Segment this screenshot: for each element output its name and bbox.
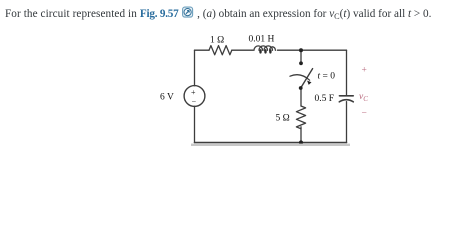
svg-text:5 Ω: 5 Ω: [276, 114, 290, 124]
gray band below bottom wire: [191, 144, 350, 147]
problem statement text: [5, 5, 474, 22]
wire switch upper stub: [300, 50, 302, 63]
wire switch to resistor: [300, 88, 302, 106]
switch action arc arrow: [290, 75, 310, 81]
inductor L1 0.01H: [254, 46, 275, 50]
wire resistor to bottom: [300, 127, 302, 143]
inductor winding curl 2: [264, 49, 267, 54]
svg-text:−: −: [192, 97, 197, 106]
switch arrow head: [307, 81, 311, 85]
inductor winding curl 3: [269, 49, 272, 54]
svg-text:1 Ω: 1 Ω: [210, 36, 224, 46]
node B junction dot (bottom of middle branch): [299, 140, 303, 144]
wire right branch upper (to capacitor): [346, 50, 348, 95]
wire between resistor and inductor: [232, 49, 253, 51]
wire right branch lower (capacitor to bottom): [346, 102, 348, 143]
resistor R2 5ohm: [296, 106, 305, 129]
svg-text:+: +: [191, 88, 196, 97]
resistor R1 1ohm: [209, 46, 232, 55]
svg-text:t = 0: t = 0: [318, 72, 336, 82]
svg-text:−: −: [362, 109, 367, 119]
switch terminal dot upper: [299, 61, 303, 65]
voltage source V1 circle: [184, 86, 205, 107]
wire top-left segment: [195, 49, 210, 51]
wire node A to top-right corner: [301, 49, 347, 51]
inductor winding curl 1: [259, 49, 262, 54]
figure link icon: [181, 5, 194, 22]
svg-text:6 V: 6 V: [160, 93, 174, 103]
svg-text:vC: vC: [359, 92, 368, 103]
wire bottom: [195, 142, 347, 144]
wire left branch lower (source to bottom): [194, 106, 196, 142]
capacitor C1 curved bottom plate: [339, 100, 353, 102]
node A junction dot (top of middle branch): [299, 48, 303, 52]
wire left branch upper (top wire to source): [194, 50, 196, 85]
circuit schematic: [0, 0, 474, 146]
wire inductor to node A: [277, 49, 301, 51]
switch blade SW1: [301, 69, 313, 88]
capacitor C1 top plate: [340, 95, 354, 97]
svg-text:0.5 F: 0.5 F: [315, 94, 335, 104]
switch terminal dot lower: [299, 86, 303, 90]
svg-text:0.01 H: 0.01 H: [249, 35, 275, 45]
svg-text:+: +: [362, 66, 367, 76]
